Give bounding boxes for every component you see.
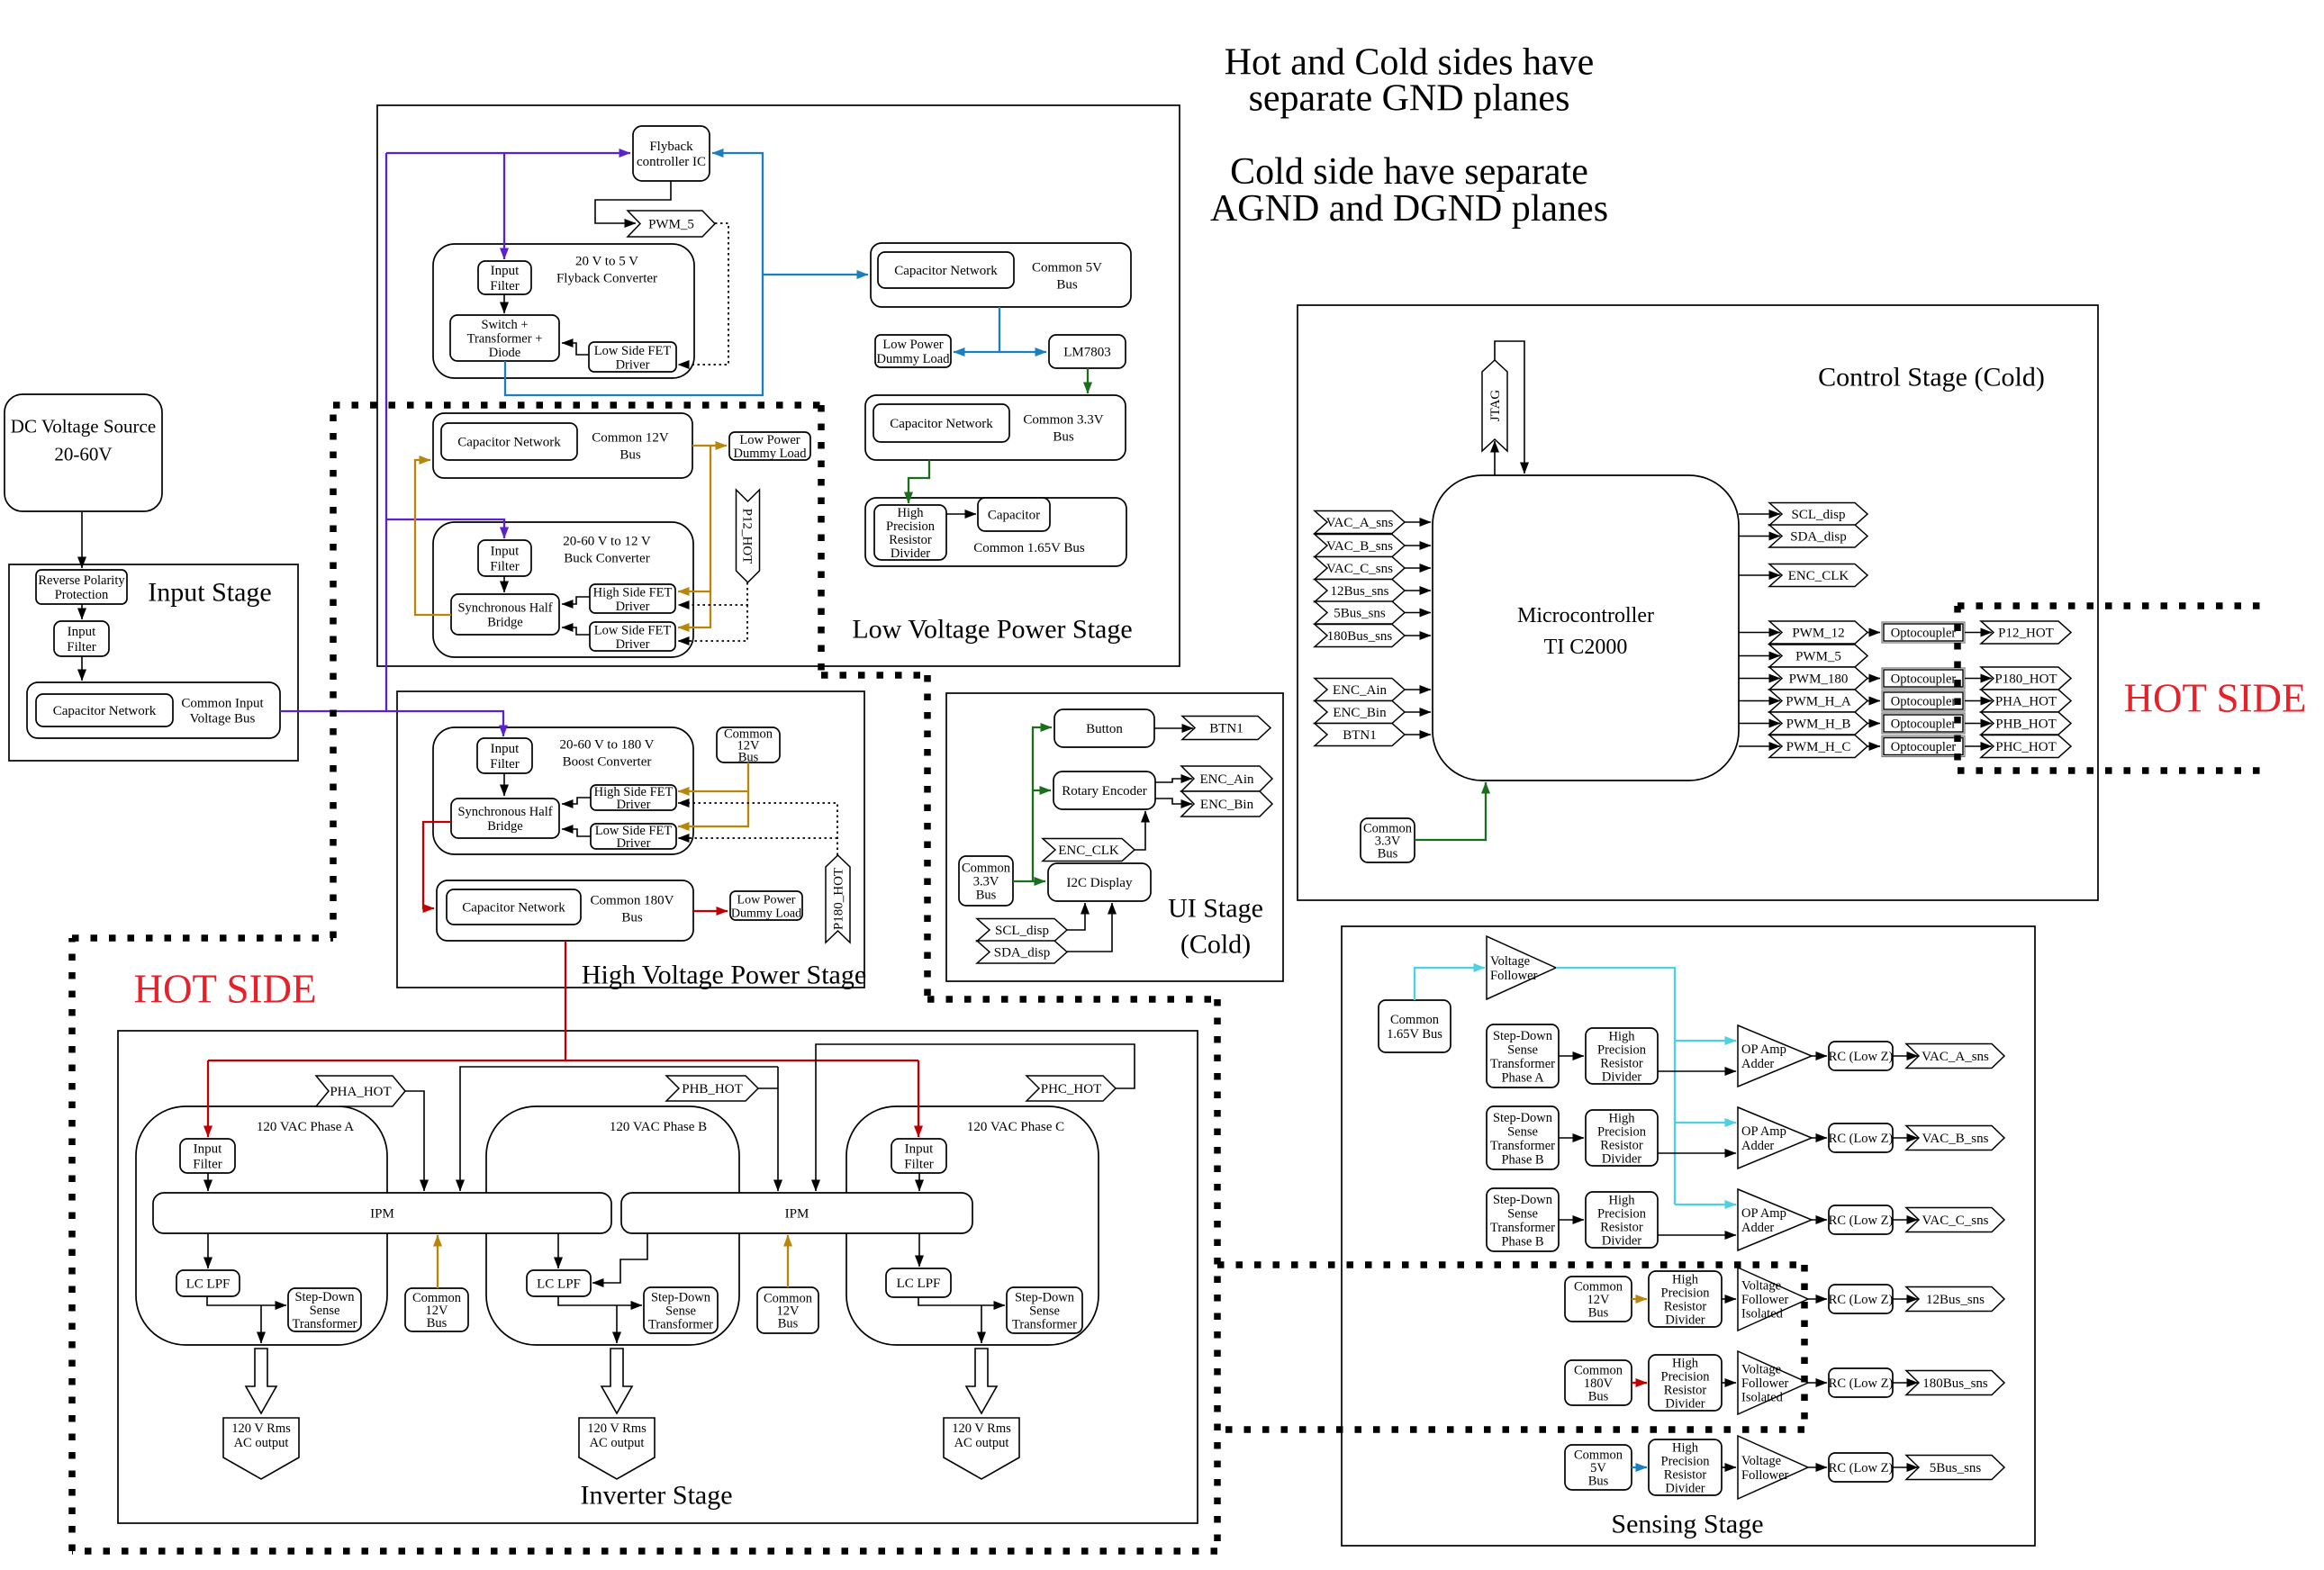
block: LC LPF (phase B) (527, 1270, 591, 1296)
svg-text:Divider: Divider (1665, 1397, 1705, 1412)
svg-text:120 VAC Phase C: 120 VAC Phase C (967, 1120, 1064, 1134)
block: Voltage Follower (5Bus_sns) (1738, 1436, 1808, 1499)
svg-text:Precision: Precision (1661, 1370, 1711, 1385)
svg-text:Diode: Diode (489, 346, 520, 360)
wire: PWM_H_C to optocoupler (1867, 745, 1880, 747)
svg-text:Transformer: Transformer (1012, 1318, 1077, 1332)
svg-text:Voltage: Voltage (1741, 1454, 1781, 1468)
svg-text:PHA_HOT: PHA_HOT (330, 1085, 391, 1099)
wire: purple bus vertical (385, 153, 387, 711)
svg-text:SDA_disp: SDA_disp (1790, 530, 1847, 545)
node: ENC_CLK (MCU output) (1769, 564, 1867, 587)
svg-text:Divider: Divider (1602, 1234, 1641, 1249)
svg-text:120 V Rms: 120 V Rms (587, 1421, 647, 1436)
svg-text:P12_HOT: P12_HOT (739, 509, 754, 564)
wire: PWM_12 to optocoupler (1867, 632, 1880, 634)
svg-text:Common 5V: Common 5V (1032, 261, 1102, 275)
wire: divider to follower (180Bus_sns) (1722, 1382, 1736, 1384)
svg-text:Transformer: Transformer (1490, 1139, 1555, 1153)
label: 120 VAC Phase B (610, 1120, 707, 1134)
wire: P12_HOT dotted to buck drivers (678, 582, 747, 605)
wire: MCU to PWM_12 (1739, 632, 1780, 634)
wire: optocoupler to P12_HOT (1965, 632, 1992, 634)
svg-text:Precision: Precision (886, 519, 936, 534)
svg-text:RC (Low Z): RC (Low Z) (1829, 1376, 1894, 1391)
svg-text:Bus: Bus (619, 448, 641, 463)
block: I2C Display (1048, 863, 1151, 901)
svg-text:Sense: Sense (1029, 1304, 1060, 1319)
block: IPM (phases A/B) (153, 1193, 611, 1233)
container: UI Stage (Cold) (946, 693, 1283, 981)
block: LC LPF (phase A) (176, 1270, 240, 1296)
wire: cyan to op amp adder B (1675, 1122, 1736, 1123)
block: Optocoupler (PWM_H_A) (1882, 690, 1965, 711)
node: PWM_12 (MCU output) (1769, 621, 1867, 644)
container: Input Stage (9, 564, 298, 761)
label: 20-60 V to 12 V Buck Converter (563, 535, 651, 566)
wire: MCU to PWM_180 (1739, 678, 1780, 680)
block: Input Filter (phase C) (891, 1139, 946, 1173)
block: Common 1.65V Bus (sensing) (1379, 1000, 1451, 1052)
svg-text:SDA_disp: SDA_disp (994, 946, 1051, 961)
node: ENC_Bin (UI) (1181, 791, 1272, 817)
svg-text:Synchronous Half: Synchronous Half (457, 601, 552, 616)
svg-text:Precision: Precision (1597, 1207, 1647, 1222)
node: SCL_disp (UI) (977, 919, 1067, 942)
block: Optocoupler (PWM_12) (1882, 622, 1965, 643)
container: 120 VAC Phase B (486, 1106, 739, 1345)
svg-text:PWM_12: PWM_12 (1792, 627, 1844, 641)
label: 20-60 V to 180 V Boost Converter (559, 738, 654, 770)
block: Input Filter (buck) (478, 540, 531, 576)
wire: MCU to SDA_disp (1739, 536, 1780, 537)
svg-text:OP Amp: OP Amp (1741, 1206, 1786, 1221)
wire: P180_HOT dotted to boost low driver (678, 837, 837, 839)
block: Voltage Follower Isolated (180Bus_sns) (1738, 1351, 1808, 1414)
block: Optocoupler (PWM_H_C) (1882, 736, 1965, 757)
wire: MCU to PWM_H_B (1739, 723, 1780, 725)
wire: PWM_5 dotted to low side driver (flyback) (678, 223, 728, 365)
svg-text:Flyback Converter: Flyback Converter (556, 272, 657, 286)
svg-text:Capacitor Network: Capacitor Network (457, 436, 561, 450)
svg-text:High Voltage Power Stage: High Voltage Power Stage (582, 960, 866, 989)
block: Step-Down Sense Transformer (sense A) (1487, 1024, 1559, 1087)
block: Common 3.3V Bus (control) (1361, 818, 1415, 862)
wire: green 3.3V to MCU (1415, 782, 1486, 840)
node: 120V Rms AC output (phase B) (579, 1418, 655, 1479)
svg-text:Voltage: Voltage (1741, 1363, 1781, 1377)
svg-text:Precision: Precision (1661, 1455, 1711, 1469)
svg-text:Driver: Driver (616, 637, 650, 652)
wire: 180Bus_sns to MCU (1405, 635, 1431, 636)
svg-text:Phase B: Phase B (1501, 1152, 1543, 1167)
symbol: AC output arrow (phase A) (246, 1349, 276, 1413)
wire: purple branch to flyback input filter (503, 153, 505, 259)
svg-text:Bridge: Bridge (487, 616, 522, 630)
block: Synchronous Half Bridge (boost) (451, 799, 559, 838)
node: P180_HOT tag (1981, 667, 2071, 690)
svg-text:PWM_180: PWM_180 (1789, 672, 1849, 687)
wire: optocoupler to PHC_HOT (1965, 745, 1992, 747)
svg-text:Divider: Divider (1665, 1313, 1705, 1328)
block: Common 5V Bus (sensing) (1565, 1445, 1632, 1490)
svg-text:Input: Input (491, 545, 520, 559)
svg-text:Capacitor Network: Capacitor Network (890, 417, 993, 431)
svg-text:Buck Converter: Buck Converter (564, 552, 649, 566)
svg-text:Driver: Driver (616, 357, 650, 372)
label: UI Stage (Cold) (1168, 893, 1263, 959)
svg-text:IPM: IPM (785, 1207, 809, 1222)
svg-text:LC LPF: LC LPF (186, 1277, 231, 1292)
wire: P12_HOT dotted to buck low driver (678, 605, 747, 641)
svg-text:Step-Down: Step-Down (1493, 1193, 1553, 1207)
node: ENC_Bin (MCU input) (1315, 701, 1405, 724)
block: Low Side FET Driver (flyback) (589, 342, 676, 372)
svg-text:ENC_Ain: ENC_Ain (1333, 683, 1388, 698)
svg-text:AGND and DGND planes: AGND and DGND planes (1210, 188, 1608, 230)
block: RC Low Z (sense C) (1829, 1205, 1894, 1234)
svg-text:Button: Button (1086, 722, 1123, 736)
wire: buck high driver to bridge (562, 597, 590, 604)
node: SCL_disp (MCU output) (1769, 503, 1867, 526)
node: PHB_HOT tag (1981, 712, 2071, 735)
svg-text:20-60 V to 180 V: 20-60 V to 180 V (559, 738, 654, 753)
svg-text:Input: Input (491, 264, 520, 278)
block: Capacitor Network (180V bus) (447, 889, 581, 925)
svg-text:DC Voltage Source: DC Voltage Source (11, 416, 156, 438)
node: 5Bus_sns (MCU input) (1315, 601, 1405, 624)
wire: VAC_C_sns to MCU (1405, 567, 1431, 569)
block: RC Low Z (180Bus_sns) (1829, 1368, 1894, 1397)
block: Capacitor Network (12V bus) (441, 423, 577, 460)
block: Common 180V Bus (sensing) (1565, 1360, 1632, 1405)
svg-text:Cold side have separate: Cold side have separate (1230, 151, 1588, 193)
block: Step-Down Sense Transformer (sense B) (1487, 1106, 1559, 1169)
wire: PHC_HOT net to IPM2 (816, 1044, 1135, 1191)
block: RC Low Z (sense A) (1829, 1042, 1894, 1070)
block: Flyback controller IC (633, 126, 710, 181)
svg-text:High Side FET: High Side FET (593, 585, 673, 600)
svg-text:Bus: Bus (1588, 1475, 1609, 1489)
block: Reverse Polarity Protection (36, 570, 127, 604)
wire: LM7803 to 3.3V bus (1087, 368, 1089, 393)
svg-text:Phase A: Phase A (1501, 1070, 1544, 1085)
block: Voltage Follower (1.65V) (1487, 936, 1556, 999)
wire: IPM2 to LC LPF C (918, 1233, 920, 1267)
svg-text:separate GND planes: separate GND planes (1249, 78, 1570, 120)
label: Common 5V Bus (1032, 261, 1102, 293)
container: Sensing Stage (1342, 926, 2035, 1546)
svg-text:Optocoupler: Optocoupler (1891, 717, 1957, 732)
wire: transformer to divider (A) (1559, 1055, 1584, 1057)
block: Step-Down Sense Transformer (phase C) (1007, 1287, 1082, 1333)
wire: 3.3V bus to resistor divider (909, 460, 929, 503)
svg-text:PWM_H_A: PWM_H_A (1786, 695, 1851, 709)
svg-text:Step-Down: Step-Down (1015, 1291, 1075, 1305)
svg-text:Sense: Sense (1507, 1042, 1538, 1057)
container: 120 VAC Phase C (846, 1106, 1099, 1345)
node: BTN1 (MCU input) (1315, 724, 1405, 746)
node: VAC_C_sns tag (1906, 1208, 2004, 1232)
wire: input filter to capacitor network (81, 656, 83, 681)
wire: SCL_disp to display (1067, 903, 1085, 930)
container: Common 1.65V Bus (865, 498, 1126, 566)
wire: divider to capacitor (946, 513, 976, 515)
svg-text:PWM_5: PWM_5 (648, 218, 694, 232)
block: OP Amp Adder (B) (1738, 1107, 1812, 1168)
wire: P180_HOT dotted up to boost high driver (678, 803, 837, 855)
svg-text:Divider: Divider (891, 546, 930, 561)
svg-text:Low Power: Low Power (739, 433, 800, 447)
wire: follower to RC (180Bus_sns) (1808, 1382, 1827, 1384)
svg-text:Optocoupler: Optocoupler (1891, 672, 1957, 687)
wire: gold bridge to 12V bus (415, 460, 451, 615)
svg-text:Divider: Divider (1602, 1152, 1641, 1167)
symbol: AC output arrow (phase C) (966, 1349, 997, 1413)
note: AGND and DGND planes (1210, 151, 1608, 230)
svg-text:Resistor: Resistor (1600, 1139, 1643, 1153)
wire: phase C output down (981, 1305, 982, 1343)
wire: optocoupler to PHB_HOT (1965, 723, 1992, 725)
svg-text:Follower: Follower (1490, 969, 1538, 983)
block: Low Power Dummy Load (12V) (729, 432, 810, 461)
svg-text:Follower: Follower (1741, 1376, 1789, 1391)
label: Input Stage (148, 577, 271, 607)
svg-text:Microcontroller: Microcontroller (1517, 604, 1654, 627)
svg-text:Step-Down: Step-Down (294, 1290, 355, 1304)
wire: green 3.3V to I2C display (1013, 880, 1045, 882)
wire: MCU to SCL_disp (1739, 513, 1780, 515)
wire: divider to follower (12Bus_sns) (1722, 1298, 1736, 1300)
svg-text:Protection: Protection (55, 588, 109, 602)
svg-text:VAC_B_sns: VAC_B_sns (1922, 1132, 1989, 1146)
svg-text:Low Side FET: Low Side FET (594, 344, 672, 358)
svg-text:High: High (1609, 1030, 1636, 1044)
svg-text:AC output: AC output (954, 1436, 1009, 1450)
svg-text:P180_HOT: P180_HOT (832, 868, 846, 930)
wire: green branch to rotary encoder (1033, 790, 1051, 791)
block: OP Amp Adder (A) (1738, 1025, 1812, 1087)
svg-text:Transformer: Transformer (1490, 1221, 1555, 1235)
svg-text:Bus: Bus (621, 911, 643, 925)
wire: ENC_CLK to encoder (1135, 811, 1145, 850)
svg-text:Bus: Bus (1056, 278, 1078, 293)
node: VAC_A_sns tag (1906, 1044, 2004, 1069)
svg-text:5Bus_sns: 5Bus_sns (1930, 1461, 1982, 1475)
svg-text:Follower: Follower (1741, 1293, 1789, 1307)
node: PWM_H_B (MCU output) (1769, 712, 1867, 735)
svg-text:High: High (898, 506, 925, 520)
svg-text:LC LPF: LC LPF (537, 1277, 581, 1292)
block: High Side FET Driver (boost) (591, 785, 676, 812)
svg-text:Flyback: Flyback (649, 140, 693, 154)
wire: gold 12V bus to IPM1 (437, 1235, 439, 1288)
svg-text:(Cold): (Cold) (1180, 929, 1251, 959)
wire: RC to VAC_B_sns (1893, 1137, 1918, 1139)
node: ENC_Ain (UI) (1181, 766, 1272, 791)
node: SDA_disp (MCU output) (1769, 525, 1867, 547)
wire: red 180V bus down to inverter (565, 941, 566, 1060)
svg-text:PHB_HOT: PHB_HOT (682, 1082, 743, 1096)
container: High Voltage Power Stage (397, 691, 864, 988)
wire: gold branch to high driver (buck) (678, 591, 710, 592)
wire: ENC_Bin to MCU (1405, 711, 1431, 713)
node: JTAG tag (1482, 360, 1507, 451)
svg-text:Sense: Sense (1507, 1124, 1538, 1139)
label: HOT SIDE (right) (2124, 676, 2307, 721)
wire: SDA_disp to display (1067, 903, 1112, 952)
node: VAC_B_sns (MCU input) (1315, 535, 1405, 557)
block: Input Filter (phase A) (180, 1139, 235, 1173)
wire: follower to RC (5Bus_sns) (1808, 1466, 1827, 1468)
label: Sensing Stage (1611, 1509, 1763, 1538)
wire: cyan to op amp adder A (1675, 1040, 1736, 1042)
node: PHB_HOT tag (inverter) (666, 1076, 758, 1101)
block: Synchronous Half Bridge (buck) (451, 594, 559, 635)
block: Capacitor Network (3.3V bus) (873, 404, 1009, 442)
node: PWM_5 (MCU output) (1769, 645, 1867, 667)
svg-text:PWM_H_B: PWM_H_B (1786, 717, 1851, 732)
svg-text:HOT SIDE: HOT SIDE (134, 967, 317, 1012)
wire: flyback input filter to switch (503, 294, 505, 313)
wire: PWM_H_A to optocoupler (1867, 700, 1880, 702)
wire: phase A output down (260, 1305, 262, 1343)
wire: gold 12V bus to boost drivers (678, 762, 748, 826)
container: Common Input Voltage Bus (27, 682, 280, 738)
node: VAC_C_sns (MCU input) (1315, 557, 1405, 580)
svg-text:PWM_H_C: PWM_H_C (1786, 740, 1851, 754)
svg-text:Optocoupler: Optocoupler (1891, 740, 1957, 754)
wire: phase A filter to IPM (207, 1173, 209, 1191)
container: Common 12V Bus (433, 413, 692, 478)
wire: optocoupler to PHA_HOT (1965, 700, 1992, 702)
wire: red 180V bus to dummy load (693, 910, 728, 912)
svg-text:JTAG: JTAG (1488, 390, 1503, 422)
wire: IPM1 to LC LPF B (557, 1233, 559, 1268)
block: Common 12V Bus (boost side) (717, 727, 780, 765)
svg-text:Filter: Filter (904, 1158, 934, 1172)
block: Capacitor Network (5V bus) (878, 252, 1014, 288)
wire: PWM_180 to optocoupler (1867, 678, 1880, 680)
wire: 12Bus_sns to MCU (1405, 590, 1431, 591)
wire: phase B output down (616, 1305, 618, 1343)
block: OP Amp Adder (C) (1738, 1189, 1812, 1250)
wire: button to BTN1 (1154, 727, 1193, 729)
svg-text:VAC_A_sns: VAC_A_sns (1326, 516, 1394, 530)
wire: reverse polarity to input filter (81, 604, 83, 619)
block: High Precision Resistor Divider (sense A) (1586, 1028, 1658, 1085)
label: 20 V to 5 V Flyback Converter (556, 255, 657, 286)
svg-text:Input: Input (194, 1142, 222, 1157)
svg-text:Precision: Precision (1597, 1043, 1647, 1058)
svg-text:PWM_5: PWM_5 (1795, 650, 1841, 664)
node: ENC_Ain (MCU input) (1315, 679, 1405, 701)
wire: 5V bus to dummy load (954, 351, 999, 353)
wire: DC source to reverse polarity protection (81, 512, 83, 568)
block: High Precision Resistor Divider (sense C) (1586, 1192, 1658, 1249)
block: Low Side FET Driver (boost) (591, 824, 676, 851)
block: Microcontroller TI C2000 (1433, 475, 1739, 780)
wire: encoder to ENC_Bin (1155, 799, 1192, 804)
svg-text:180Bus_sns: 180Bus_sns (1922, 1376, 1988, 1391)
symbol: AC output arrow (phase B) (601, 1349, 632, 1413)
block: Capacitor (1.65V) (978, 498, 1050, 531)
block: High Precision Resistor Divider (180Bus_sns) (1649, 1355, 1722, 1412)
svg-text:Bridge: Bridge (487, 819, 522, 834)
label: Microcontroller TI C2000 (1517, 604, 1654, 659)
block: Input Filter (input stage) (54, 621, 109, 656)
svg-text:Isolated: Isolated (1741, 1391, 1784, 1405)
block: Input Filter (flyback) (478, 261, 531, 294)
block: IPM (phases B/C) (621, 1193, 972, 1233)
svg-text:High: High (1672, 1273, 1699, 1287)
node: 180Bus_sns (MCU input) (1315, 625, 1405, 647)
block: Common 12V Bus (inverter left) (405, 1288, 468, 1331)
wire: boost low driver to bridge (562, 829, 591, 836)
svg-text:High: High (1609, 1112, 1636, 1126)
svg-text:Low Power: Low Power (737, 893, 796, 907)
wire: red rail to phase A input filter (207, 1060, 209, 1137)
container: Common 3.3V Bus (865, 395, 1126, 460)
svg-text:Dummy Load: Dummy Load (734, 447, 808, 461)
svg-text:Phase B: Phase B (1501, 1234, 1543, 1249)
svg-text:High: High (1672, 1441, 1699, 1456)
svg-text:Resistor: Resistor (1600, 1221, 1643, 1235)
svg-text:ENC_Ain: ENC_Ain (1200, 772, 1255, 787)
svg-text:20-60V: 20-60V (54, 444, 112, 465)
wire: red rail to phase C input filter (918, 1060, 919, 1137)
wire: phase C filter to IPM (918, 1173, 920, 1191)
node: P180_HOT tag (826, 855, 850, 943)
wire: JTAG to MCU (1495, 341, 1524, 474)
svg-text:Sense: Sense (665, 1304, 696, 1319)
node: VAC_B_sns tag (1906, 1126, 2004, 1150)
boundary: hot side dotted (isolated sensing rows) (1217, 1265, 1804, 1430)
wire: RC to 12Bus_sns (1893, 1298, 1918, 1300)
svg-text:RC (Low Z): RC (Low Z) (1829, 1461, 1894, 1475)
svg-text:ENC_CLK: ENC_CLK (1058, 844, 1119, 858)
svg-text:Capacitor Network: Capacitor Network (462, 901, 565, 916)
block: RC Low Z (sense B) (1829, 1123, 1894, 1152)
node: P12_HOT tag (1981, 621, 2071, 644)
svg-text:Voltage: Voltage (1490, 954, 1530, 969)
node: 120V Rms AC output (phase A) (223, 1418, 299, 1479)
svg-text:RC (Low Z): RC (Low Z) (1829, 1293, 1894, 1307)
svg-text:Low Power: Low Power (882, 338, 943, 352)
wire: PHA_HOT to IPM (405, 1091, 424, 1191)
svg-text:Common: Common (962, 862, 1011, 876)
svg-text:Dummy Load: Dummy Load (877, 352, 951, 366)
svg-text:Boost Converter: Boost Converter (563, 755, 652, 770)
wire: bus to divider (12Bus_sns) (1632, 1298, 1647, 1300)
svg-text:Low Side FET: Low Side FET (594, 623, 672, 637)
wire: RC to 5Bus_sns (1893, 1466, 1918, 1468)
svg-text:OP Amp: OP Amp (1741, 1124, 1786, 1139)
node: 12Bus_sns (MCU input) (1315, 580, 1405, 602)
node: PWM_H_C (MCU output) (1769, 735, 1867, 758)
block: High Side FET Driver (buck) (590, 584, 675, 614)
label: Common 180V Bus (591, 894, 674, 925)
svg-text:Optocoupler: Optocoupler (1891, 695, 1957, 709)
wire: boost high driver to bridge (562, 798, 591, 804)
svg-text:OP Amp: OP Amp (1741, 1042, 1786, 1057)
svg-text:Filter: Filter (490, 560, 520, 574)
svg-text:Bus: Bus (1588, 1306, 1609, 1321)
svg-text:Bus: Bus (1588, 1390, 1609, 1404)
svg-text:Dummy Load: Dummy Load (731, 907, 801, 920)
label: Control Stage (Cold) (1818, 362, 2045, 392)
wire: blue switch output to flyback IC feedback (505, 153, 763, 395)
